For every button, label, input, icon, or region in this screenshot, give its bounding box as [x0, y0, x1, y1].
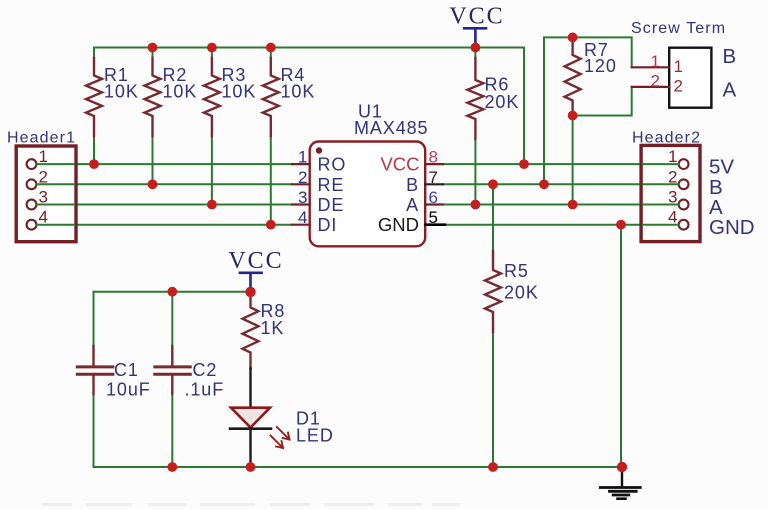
wire row GND down to ground rail [620, 225, 622, 467]
wire row GND U1 pin5 to Header2 pin4 [445, 224, 679, 226]
U1 pin 5 stub [425, 223, 445, 226]
svg-text:20K: 20K [485, 92, 520, 112]
svg-text:3: 3 [39, 188, 48, 207]
svg-text:B: B [723, 45, 737, 68]
svg-text:Screw Term: Screw Term [631, 20, 726, 37]
resistor R8 [243, 292, 259, 369]
svg-text:5: 5 [429, 208, 438, 227]
svg-text:1: 1 [298, 148, 307, 167]
Header1 pin 4 circle [27, 220, 37, 230]
node top rail R4 [266, 43, 276, 53]
svg-text:2: 2 [674, 77, 683, 96]
capacitor C1 [77, 346, 113, 394]
svg-text:10K: 10K [222, 82, 257, 102]
svg-text:1: 1 [651, 52, 660, 71]
node row3 R3 [207, 200, 217, 210]
wire row1 RO Header1 to U1 [36, 163, 292, 165]
Header2 pin 2 circle [679, 179, 689, 189]
wire B branch vertical to R7 top [544, 37, 573, 184]
wire R7 bottom to row A [572, 116, 574, 205]
U1 pin1 dot [316, 147, 322, 153]
capacitor C2 [155, 346, 191, 394]
Header1 connector body [16, 146, 76, 242]
resistor R5 [485, 251, 501, 332]
svg-text:4: 4 [668, 208, 677, 227]
node row B branch [539, 179, 549, 189]
svg-text:LED: LED [296, 426, 334, 446]
wire C2 bottom lead [171, 394, 173, 467]
wire R5 bottom to ground rail [492, 332, 494, 467]
wire row B down to R5 [492, 184, 494, 251]
screw terminal J1 body [669, 48, 711, 108]
svg-text:120: 120 [584, 56, 617, 76]
svg-text:A: A [723, 79, 737, 102]
svg-text:Header2: Header2 [632, 130, 701, 147]
node top rail VCC [471, 43, 481, 53]
svg-text:4: 4 [39, 208, 48, 227]
svg-text:VCC: VCC [380, 154, 419, 175]
svg-text:DI: DI [318, 215, 338, 235]
wire row4 DI Header1 to U1 [36, 224, 292, 226]
svg-text:C2: C2 [193, 360, 218, 380]
wire Header1 pin 2 inner [37, 183, 74, 185]
wire Header1 pin 4 inner [37, 224, 74, 226]
power symbol VCC top [464, 28, 486, 47]
wire row B U1 pin7 to Header2 pin2 [443, 183, 679, 185]
U1 pin 4 stub [292, 224, 310, 226]
svg-text:1: 1 [668, 147, 677, 166]
wire Header2 pin 2 inner [643, 183, 678, 185]
node mid rail VCC R8 [245, 287, 255, 297]
svg-text:1K: 1K [261, 318, 285, 338]
svg-text:10uF: 10uF [106, 380, 151, 400]
node row B R5 [488, 179, 498, 189]
LED D1 [230, 408, 290, 448]
svg-text:B: B [406, 175, 419, 195]
wire C1 bottom lead [93, 394, 95, 467]
svg-text:3: 3 [298, 188, 307, 207]
wire Header2 pin 3 inner [643, 204, 678, 206]
wire R7 bottom to screw terminal pin2 [573, 87, 632, 116]
screw terminal pin 2 stub [632, 86, 670, 88]
node ground rail D1 [246, 462, 256, 472]
svg-text:Header1: Header1 [7, 130, 76, 147]
wire C1 top lead [93, 292, 95, 346]
wire row3 DE Header1 to U1 [36, 204, 292, 206]
Header1 pin 1 circle [27, 159, 37, 169]
resistor R4 [263, 58, 279, 136]
U1 pin 7 stub [425, 183, 443, 185]
svg-text:2: 2 [298, 168, 307, 187]
node ground rail R5 [488, 462, 498, 472]
wire Header2 pin 4 inner [643, 224, 678, 226]
wire D1 cathode to ground rail [249, 429, 251, 467]
svg-text:2: 2 [39, 167, 48, 186]
wire R1 bottom to row RO [93, 136, 95, 164]
bottom edge artifact [42, 503, 460, 506]
wire R1 top stub [93, 48, 95, 59]
wire VCC rail down to U1 pin 8 [523, 48, 525, 165]
Header2 connector body [641, 145, 700, 241]
node ground rail C2 [167, 462, 177, 472]
resistor R7 [565, 37, 581, 115]
wire R2 top stub [152, 48, 154, 59]
node row4 R4 [266, 220, 276, 230]
node top rail R2 [148, 43, 158, 53]
wire R4 top stub [270, 48, 272, 59]
Header1 pin 2 circle [27, 179, 37, 189]
svg-text:MAX485: MAX485 [354, 118, 428, 138]
node row2 R2 [148, 179, 158, 189]
node row1 R1 [89, 159, 99, 169]
wire R2 bottom to row RE [152, 136, 154, 184]
U1 pin 3 stub [292, 203, 310, 205]
screw terminal pin 1 stub [632, 66, 670, 68]
svg-text:DE: DE [318, 195, 345, 215]
svg-text:GND: GND [709, 216, 755, 239]
wire R6 top stub [474, 48, 476, 59]
wire row A U1 pin6 to Header2 pin3 [443, 204, 679, 206]
svg-text:GND: GND [378, 214, 419, 235]
wire R3 top stub [211, 48, 213, 59]
node row A R6 [471, 200, 481, 210]
op-amp U1 MAX485 body [310, 142, 426, 247]
Header2 pin 4 circle [679, 220, 689, 230]
node R7 bottom [568, 111, 578, 121]
resistor R1 [86, 58, 102, 136]
resistor R6 [467, 58, 483, 139]
node row1 VCC drop [519, 159, 529, 169]
svg-text:.1uF: .1uF [185, 380, 225, 400]
node top rail R3 [207, 43, 217, 53]
U1 pin 2 stub [292, 183, 310, 185]
node ground rail GND [617, 462, 627, 472]
U1 pin 1 stub [292, 163, 310, 165]
svg-text:10K: 10K [281, 82, 316, 102]
svg-text:4: 4 [298, 208, 307, 227]
wire Header1 pin 1 inner [37, 163, 74, 165]
resistor R2 [145, 58, 161, 136]
svg-text:1: 1 [674, 57, 683, 76]
wire Header2 pin 1 inner [643, 163, 678, 165]
svg-text:10K: 10K [163, 82, 198, 102]
wire bottom ground rail [94, 466, 623, 468]
Header2 pin 3 circle [679, 200, 689, 210]
wire R6 bottom to row A [474, 139, 476, 205]
svg-text:10K: 10K [104, 82, 139, 102]
svg-text:2: 2 [651, 71, 660, 90]
svg-text:RO: RO [318, 155, 347, 175]
svg-text:6: 6 [429, 188, 438, 207]
node row A R7 [568, 200, 578, 210]
resistor R3 [204, 58, 220, 136]
wire R8 to D1 anode [249, 368, 251, 407]
Header1 pin 3 circle [27, 200, 37, 210]
wire C2 top lead [171, 292, 173, 346]
wire row VCC U1 pin8 to Header2 pin1 [443, 163, 679, 165]
svg-text:A: A [406, 195, 419, 215]
Header2 pin 1 circle [679, 159, 689, 169]
wire R7 top to screw terminal pin1 [573, 37, 632, 67]
node mid rail C2 [167, 287, 177, 297]
node row GND branch [616, 220, 626, 230]
wire Header1 pin 3 inner [37, 204, 74, 206]
svg-text:2: 2 [668, 167, 677, 186]
wire top VCC rail [94, 47, 524, 49]
svg-text:C1: C1 [114, 360, 139, 380]
wire R3 bottom to row DE [211, 136, 213, 205]
U1 pin 8 stub [425, 163, 443, 165]
svg-text:8: 8 [429, 148, 438, 167]
wire R4 bottom to row DI [270, 136, 272, 225]
power symbol VCC left [240, 273, 262, 292]
svg-text:3: 3 [668, 188, 677, 207]
svg-text:VCC: VCC [228, 248, 283, 274]
svg-text:VCC: VCC [449, 4, 504, 30]
svg-text:RE: RE [318, 175, 345, 195]
svg-text:7: 7 [429, 168, 438, 187]
svg-text:R5: R5 [504, 261, 529, 281]
wire VCC mid rail [94, 291, 251, 293]
ground symbol [600, 467, 640, 499]
svg-text:1: 1 [39, 147, 48, 166]
svg-text:20K: 20K [504, 283, 539, 303]
wire row2 RE Header1 to U1 [36, 183, 292, 185]
node R7 top [568, 33, 578, 43]
U1 pin 6 stub [425, 203, 443, 205]
